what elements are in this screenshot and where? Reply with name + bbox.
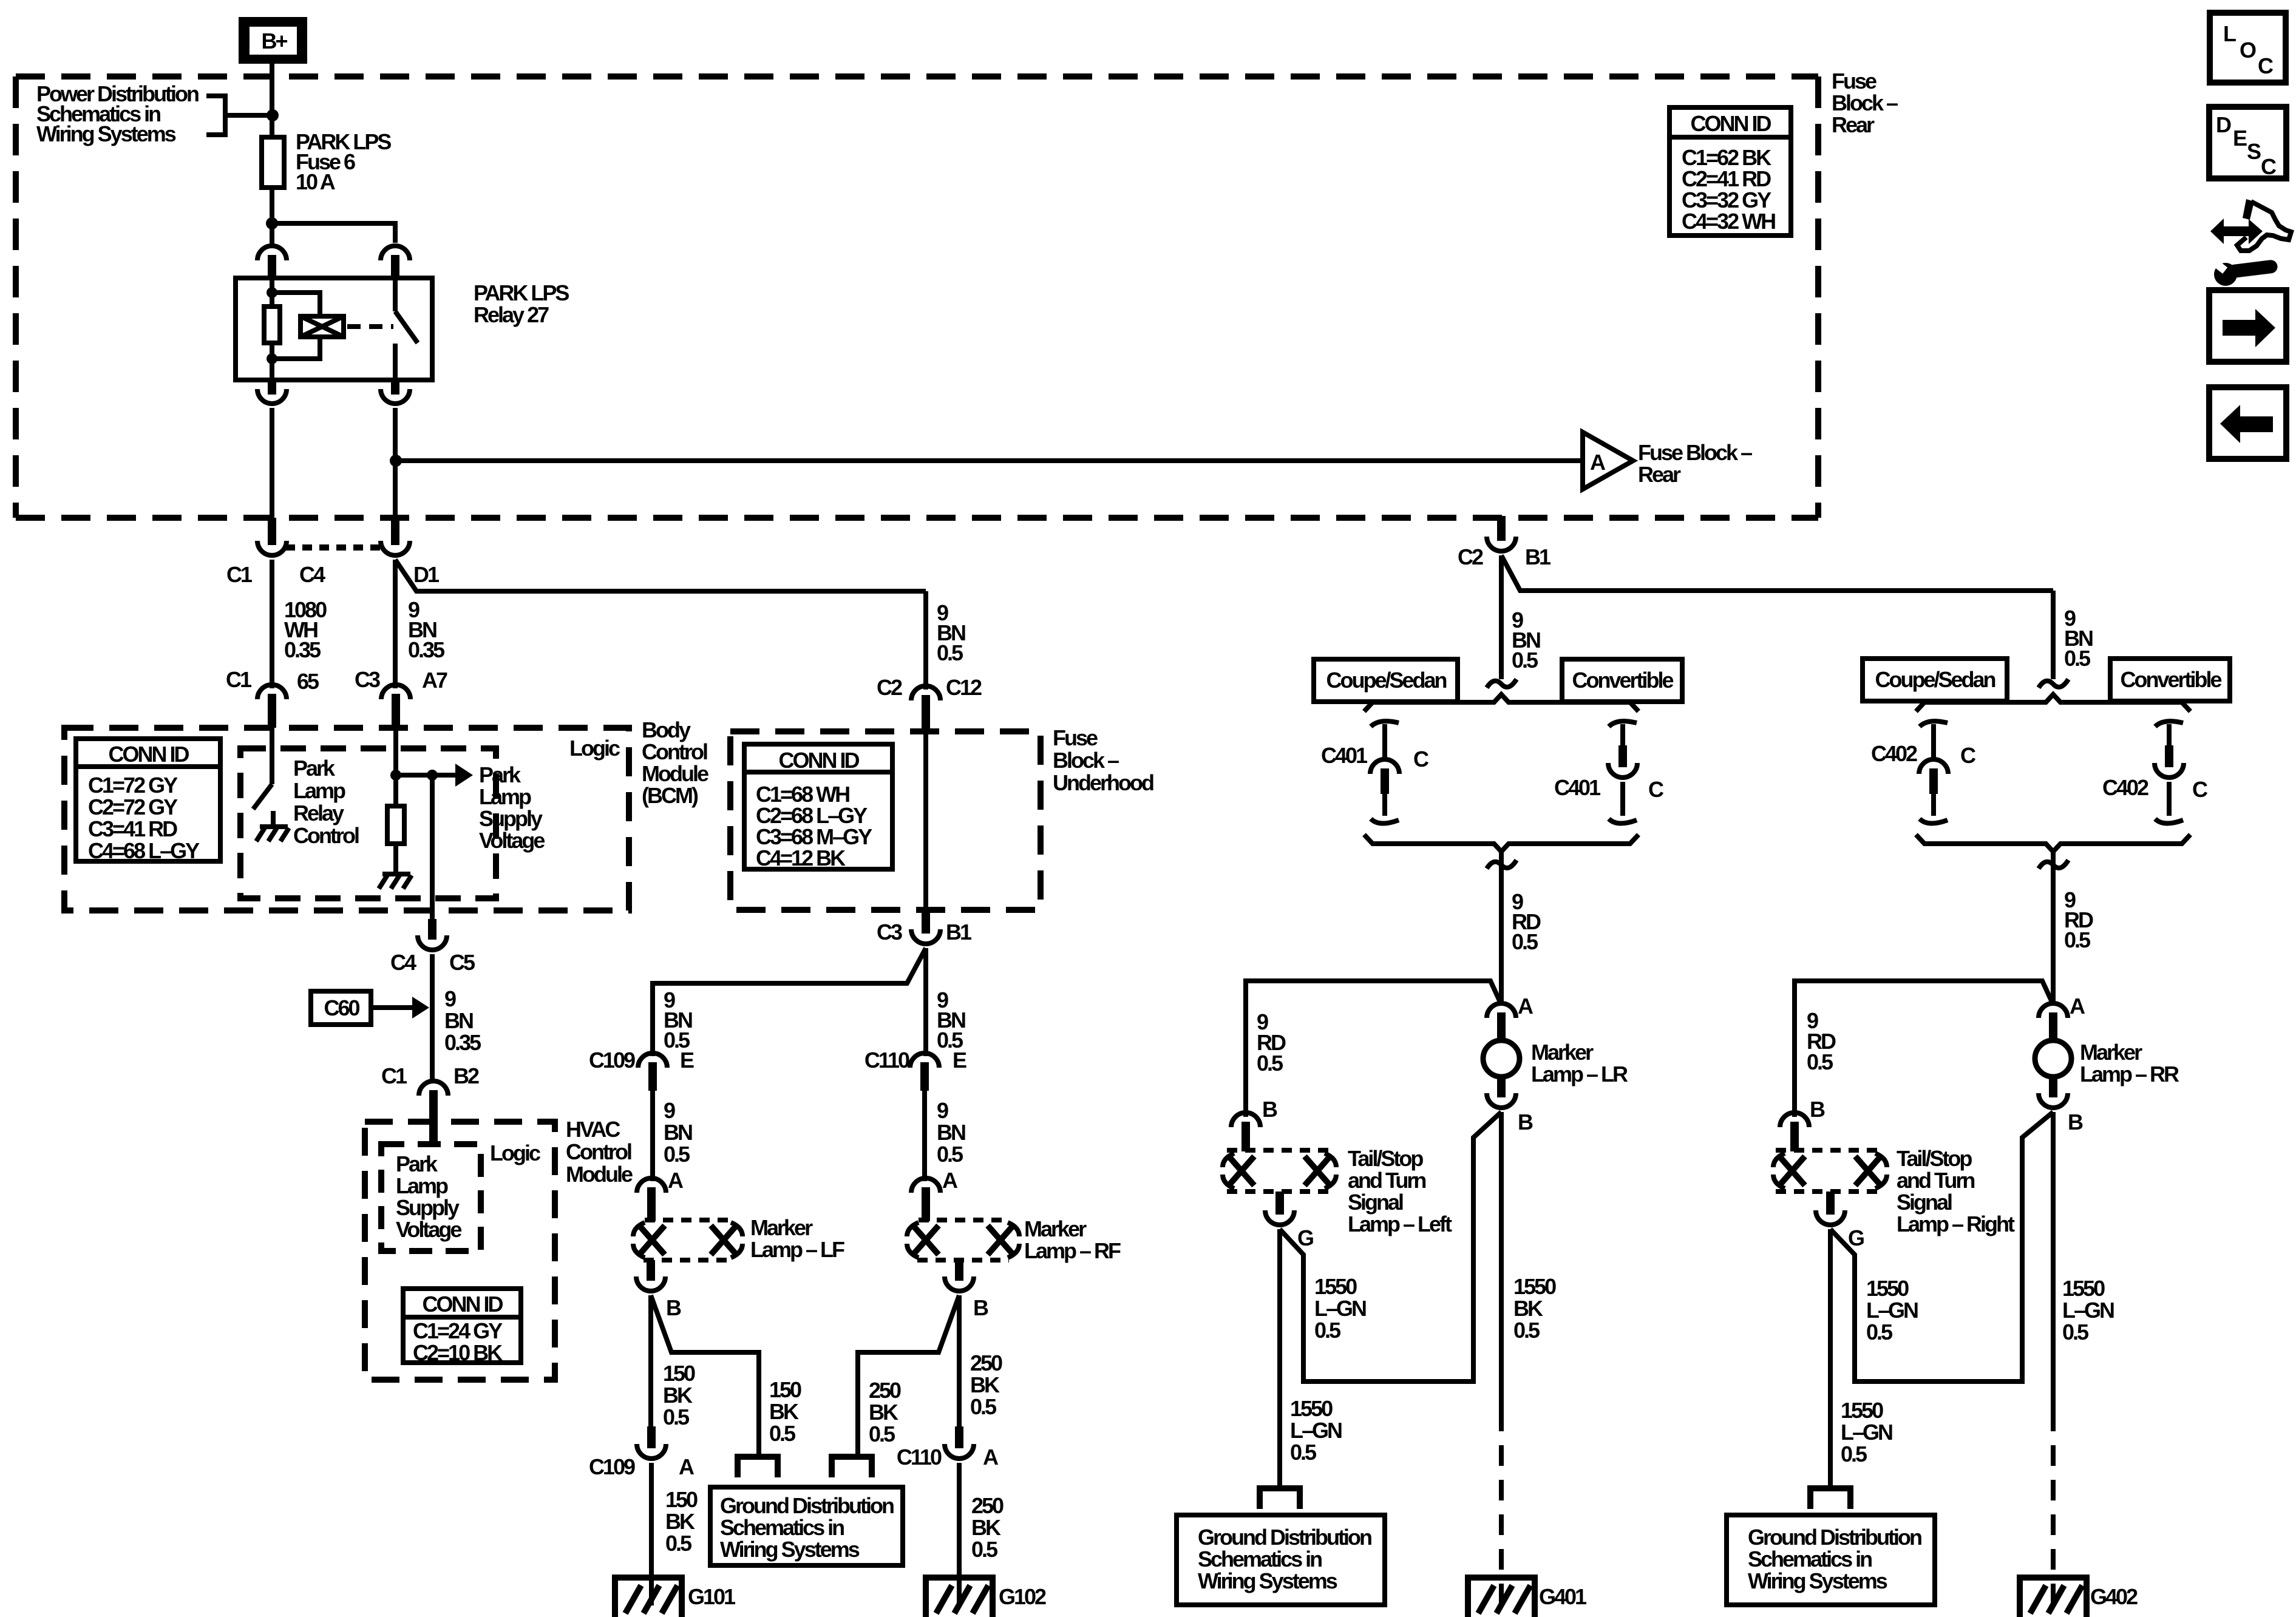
wire C109/A to G101 <box>649 1463 654 1605</box>
svg-text:C1: C1 <box>226 667 252 692</box>
connector relay pin 2 (switch feed) <box>381 246 410 279</box>
CONN ID table (underhood) <box>744 744 892 870</box>
svg-text:C109: C109 <box>589 1454 635 1479</box>
resistor inside relay <box>264 307 280 343</box>
svg-text:A: A <box>1590 450 1606 475</box>
svg-text:B1: B1 <box>1525 544 1551 569</box>
svg-text:Logic: Logic <box>490 1141 540 1165</box>
connector C2/C12 (underhood) <box>911 686 940 734</box>
icon forward arrow box <box>2209 290 2286 362</box>
wire B branch to ground fork (right) <box>858 1295 959 1457</box>
splice wave symbol <box>2039 860 2068 869</box>
connector A (marker lamp RF) <box>911 1178 940 1221</box>
note box Ground Distribution Schematics in Wiring Systems <box>1177 1515 1385 1605</box>
connector A (marker LR) <box>1487 1003 1516 1040</box>
wire down to marker LR <box>1499 852 1504 1005</box>
svg-text:C2: C2 <box>1458 544 1483 569</box>
battery feed B+ box <box>239 17 307 64</box>
relay PARK LPS Relay 27 box <box>236 278 432 380</box>
wire G to marker B loop (1550 L-GN) <box>1280 1112 1501 1381</box>
svg-text:CONN ID: CONN ID <box>109 742 189 767</box>
connector G (tail lamp left) <box>1265 1192 1294 1225</box>
connector B (marker RF) <box>945 1260 974 1291</box>
marker lamp RF (dashed housing + bulbs) <box>907 1220 1019 1260</box>
svg-text:C3: C3 <box>355 667 380 692</box>
CONN ID table (HVAC) <box>403 1289 521 1365</box>
resistor (BCM pull-up) <box>387 806 404 844</box>
icon service hand with wrench <box>2210 199 2291 286</box>
connector C2/B1 (fuse block rear out) <box>1487 516 1516 551</box>
BCM outer dashed box <box>64 728 629 910</box>
option tag box Coupe/Sedan <box>1314 659 1458 702</box>
svg-text:B+: B+ <box>261 29 287 53</box>
dashed box Fuse Block - Rear <box>16 76 1818 518</box>
connector B (marker RR) <box>2039 1077 2068 1108</box>
icon back arrow box <box>2209 387 2286 459</box>
wire G down to fork <box>1277 1229 1282 1488</box>
junction node on relay output wire <box>390 455 402 467</box>
wire A7 into BCM logic <box>393 726 398 806</box>
relay switch contact bottom <box>393 344 398 380</box>
junction node on B+ wire <box>267 109 279 121</box>
option branch coupe/sedan C402/C <box>1919 721 1948 823</box>
svg-text:65: 65 <box>297 669 319 694</box>
option branch convertible C401/C <box>1608 721 1637 823</box>
svg-text:C60: C60 <box>324 995 359 1020</box>
svg-text:Coupe/Sedan: Coupe/Sedan <box>1326 668 1446 693</box>
svg-text:CONN ID: CONN ID <box>1691 111 1771 136</box>
connector C109/A <box>637 1426 666 1459</box>
terminal fork (right, to ground distribution) <box>832 1457 872 1477</box>
HVAC logic inner dashed box <box>381 1144 481 1251</box>
dotted link between C1 and C4 connectors <box>285 544 385 551</box>
svg-text:D: D <box>2216 112 2231 137</box>
icon DESC box <box>2209 107 2286 179</box>
svg-text:C1: C1 <box>226 562 253 587</box>
wire down to C2/C12 <box>923 591 928 690</box>
HVAC outer dashed box <box>365 1122 555 1380</box>
svg-text:C4: C4 <box>299 562 325 587</box>
wire B1 down to C110 <box>923 948 928 1056</box>
svg-text:A: A <box>1518 994 1533 1019</box>
svg-text:A: A <box>942 1168 958 1193</box>
svg-text:E: E <box>2233 126 2247 151</box>
triangle tag A Fuse Block - Rear <box>1583 432 1752 489</box>
note box Ground Distribution Schematics in Wiring Systems <box>710 1487 903 1565</box>
bracket from power distribution note to wire <box>206 96 272 135</box>
wire B down to C110/A <box>957 1295 962 1428</box>
wire B+ down to fuse <box>270 64 274 140</box>
svg-text:C110: C110 <box>897 1445 942 1470</box>
wire through underhood box <box>923 734 928 910</box>
fuse block underhood dashed box <box>730 731 1041 910</box>
wire G down to fork <box>1828 1229 1833 1488</box>
svg-text:C401: C401 <box>1321 743 1368 768</box>
svg-text:B: B <box>1518 1110 1533 1134</box>
marker lamp LF (dashed housing + bulbs) <box>633 1220 742 1260</box>
svg-text:C110: C110 <box>864 1048 909 1073</box>
connector C109/E <box>638 1053 667 1091</box>
ground symbol (BCM) <box>379 874 412 889</box>
connector C3 pin A7 (BCM) <box>381 685 410 728</box>
wire B down to C109/A <box>648 1295 653 1428</box>
svg-text:A7: A7 <box>422 668 447 693</box>
option tag box Convertible <box>2110 659 2230 701</box>
wire dashed to G401 <box>1499 1411 1504 1602</box>
CONN ID table (BCM) <box>76 739 220 863</box>
option split brace bottom <box>1916 835 2190 852</box>
wire from tail lamp circuit (left) <box>1246 981 1501 1117</box>
svg-text:O: O <box>2240 38 2256 63</box>
svg-text:C1=62 BKC2=41 RDC3=32 GYC4=32: C1=62 BKC2=41 RDC3=32 GYC4=32 WH <box>1682 145 1775 234</box>
option split brace top <box>1364 694 1639 711</box>
splice wave symbol <box>1487 679 1517 688</box>
wire D1 to BCM A7 and branch right <box>395 560 926 688</box>
terminal fork (left rear) <box>1260 1488 1300 1509</box>
connector B (tail lamp left) <box>1231 1113 1260 1151</box>
wire fuse to junction <box>270 188 274 223</box>
connector relay pin 5 (switch out) <box>381 380 410 404</box>
svg-text:A: A <box>983 1445 999 1470</box>
svg-text:C1: C1 <box>381 1063 407 1088</box>
svg-text:Convertible: Convertible <box>2120 667 2221 692</box>
connector B (marker LR) <box>1487 1077 1516 1108</box>
svg-text:D1: D1 <box>413 562 440 587</box>
park lamp relay control switch wire <box>270 726 274 784</box>
wire from tail lamp circuit (right) <box>1795 981 2053 1117</box>
svg-text:C4: C4 <box>390 950 416 975</box>
connector C3/B1 (underhood) <box>911 910 940 944</box>
terminal fork (right rear) <box>1810 1488 1850 1509</box>
splice wave symbol <box>2039 679 2068 688</box>
wire relay switch out down <box>393 408 398 520</box>
option split brace top <box>1916 694 2190 711</box>
svg-text:B2: B2 <box>453 1063 479 1088</box>
relay mechanical link (dashed) <box>347 324 393 329</box>
wire junction down <box>270 223 274 244</box>
svg-text:A: A <box>2070 994 2085 1019</box>
option branch coupe/sedan C401/C <box>1370 721 1399 823</box>
wire C5 down to HVAC <box>430 954 435 1079</box>
svg-text:G402: G402 <box>2090 1584 2138 1609</box>
connector C1/B2 (HVAC) <box>419 1081 448 1142</box>
marker lamp RR bulb <box>2035 1040 2071 1077</box>
svg-text:C: C <box>2192 777 2208 802</box>
wire B1 branch to right rear <box>1501 555 2053 591</box>
svg-text:CONN ID: CONN ID <box>423 1292 503 1317</box>
wire G to marker B loop (1550 L-GN) <box>1830 1112 2053 1381</box>
svg-text:C402: C402 <box>2102 775 2148 800</box>
CONN ID table (fuse block rear) <box>1669 107 1791 236</box>
svg-text:C402: C402 <box>1871 741 1917 766</box>
connector A (marker lamp LF) <box>637 1178 666 1221</box>
relay coil branch loop <box>272 293 320 359</box>
option branch convertible C402/C <box>2155 721 2184 823</box>
wire E to A (left) <box>650 1091 655 1181</box>
junction node at resistor top <box>390 770 401 781</box>
svg-text:E: E <box>680 1048 694 1073</box>
wire dashed to G402 <box>2051 1411 2056 1602</box>
svg-text:C1=24 GYC2=10 BK: C1=24 GYC2=10 BK <box>413 1318 503 1365</box>
wire C1 down to BCM <box>270 560 274 688</box>
svg-text:B: B <box>666 1295 681 1320</box>
svg-text:C: C <box>1413 747 1429 771</box>
junction node at arrow branch <box>427 770 438 781</box>
svg-text:G401: G401 <box>1539 1584 1587 1609</box>
ground G402 <box>2020 1578 2138 1617</box>
ground G401 <box>1468 1578 1587 1617</box>
relay coil wire top <box>270 278 274 307</box>
connector C110/A <box>945 1426 974 1459</box>
svg-text:CONN ID: CONN ID <box>779 748 860 773</box>
connector relay pin 3 (coil out) <box>257 380 287 404</box>
wire resistor to ground <box>393 844 398 873</box>
wire branch to relay coil side <box>272 223 395 243</box>
ground G102 <box>926 1578 1046 1617</box>
wire relay coil out down <box>270 408 274 520</box>
internal arrow park lamp supply voltage <box>396 764 473 787</box>
wire marker B down (solid part) <box>2051 1112 2056 1411</box>
marker lamp LR bulb <box>1483 1040 1520 1077</box>
svg-text:C109: C109 <box>589 1048 635 1073</box>
svg-text:C3: C3 <box>877 920 902 944</box>
C60 tag box with arrow <box>311 991 429 1025</box>
connector B (tail lamp right) <box>1780 1113 1809 1151</box>
connector C110/E <box>910 1053 939 1091</box>
junction node coil bottom <box>267 353 277 364</box>
svg-text:B: B <box>1810 1097 1825 1122</box>
svg-text:G: G <box>1297 1225 1313 1250</box>
svg-text:A: A <box>668 1168 684 1193</box>
fuse PARK LPS Fuse 6 10A <box>262 137 284 188</box>
option split brace bottom <box>1364 835 1639 852</box>
wire B branch to ground fork (left) <box>651 1295 759 1457</box>
svg-text:Logic: Logic <box>569 736 620 761</box>
svg-text:C: C <box>1960 743 1976 768</box>
relay coil wire bottom <box>270 343 274 380</box>
svg-text:E: E <box>953 1048 966 1073</box>
relay coil winding symbol <box>301 316 344 337</box>
wire E to A (right) <box>922 1091 927 1181</box>
svg-text:B: B <box>1262 1097 1277 1122</box>
svg-text:Convertible: Convertible <box>1572 668 1673 693</box>
connector relay pin 1 (coil feed) <box>257 246 287 279</box>
svg-text:C401: C401 <box>1554 775 1601 800</box>
svg-text:Coupe/Sedan: Coupe/Sedan <box>1875 667 1995 692</box>
svg-text:C: C <box>1648 777 1664 802</box>
switch blade (park lamp relay control) <box>253 784 272 809</box>
wire down to marker RR <box>2051 852 2056 1005</box>
wire down from branch <box>2051 591 2056 679</box>
svg-text:S: S <box>2247 139 2261 164</box>
svg-text:B: B <box>2068 1110 2083 1134</box>
connector C4/D1 (fuse block rear) <box>381 518 410 555</box>
svg-text:B1: B1 <box>946 920 972 944</box>
relay switch blade <box>395 311 418 343</box>
connector B (marker LF) <box>636 1260 665 1291</box>
svg-text:C5: C5 <box>449 950 475 975</box>
svg-text:C: C <box>2258 53 2274 78</box>
wire B1 branch to C109 <box>653 948 926 1056</box>
svg-text:C2: C2 <box>877 675 902 700</box>
terminal fork (left, to ground distribution) <box>738 1457 778 1477</box>
wire C110/A to G102 <box>957 1463 962 1605</box>
connector C1 pin 65 (BCM) <box>257 685 287 728</box>
ground G101 <box>615 1578 736 1617</box>
connector C4/C5 <box>418 919 447 950</box>
wire supply voltage down to C4/C5 <box>430 775 435 920</box>
wire B1 down <box>1499 555 1504 679</box>
svg-text:A: A <box>679 1454 695 1479</box>
relay switch fixed contact top <box>393 278 398 311</box>
connector C1 (fuse block rear) <box>257 518 287 555</box>
junction node below fuse <box>266 217 278 229</box>
svg-text:L: L <box>2223 21 2236 46</box>
svg-text:C: C <box>2261 154 2277 179</box>
svg-text:G102: G102 <box>999 1584 1046 1609</box>
tail/stop lamp right (dashed housing + bulbs) <box>1773 1150 1887 1192</box>
wire marker B down (solid part) <box>1499 1112 1504 1411</box>
ground symbol (relay control) <box>256 811 289 841</box>
svg-text:C12: C12 <box>946 675 982 700</box>
option tag box Convertible <box>1562 659 1682 702</box>
connector A (marker RR) <box>2039 1003 2068 1040</box>
junction node coil top <box>267 287 277 298</box>
BCM logic inner dashed box <box>240 748 496 898</box>
svg-text:B: B <box>973 1295 988 1320</box>
note box Ground Distribution Schematics in Wiring Systems <box>1727 1515 1935 1605</box>
splice wave symbol <box>1487 860 1517 869</box>
tail/stop lamp left (dashed housing + bulbs) <box>1223 1150 1336 1192</box>
long wire relay output to fuse block rear triangle A <box>396 458 1583 463</box>
svg-text:G101: G101 <box>688 1584 736 1609</box>
option tag box Coupe/Sedan <box>1863 659 2007 701</box>
icon LOC box <box>2210 13 2286 83</box>
connector G (tail lamp right) <box>1816 1192 1845 1225</box>
